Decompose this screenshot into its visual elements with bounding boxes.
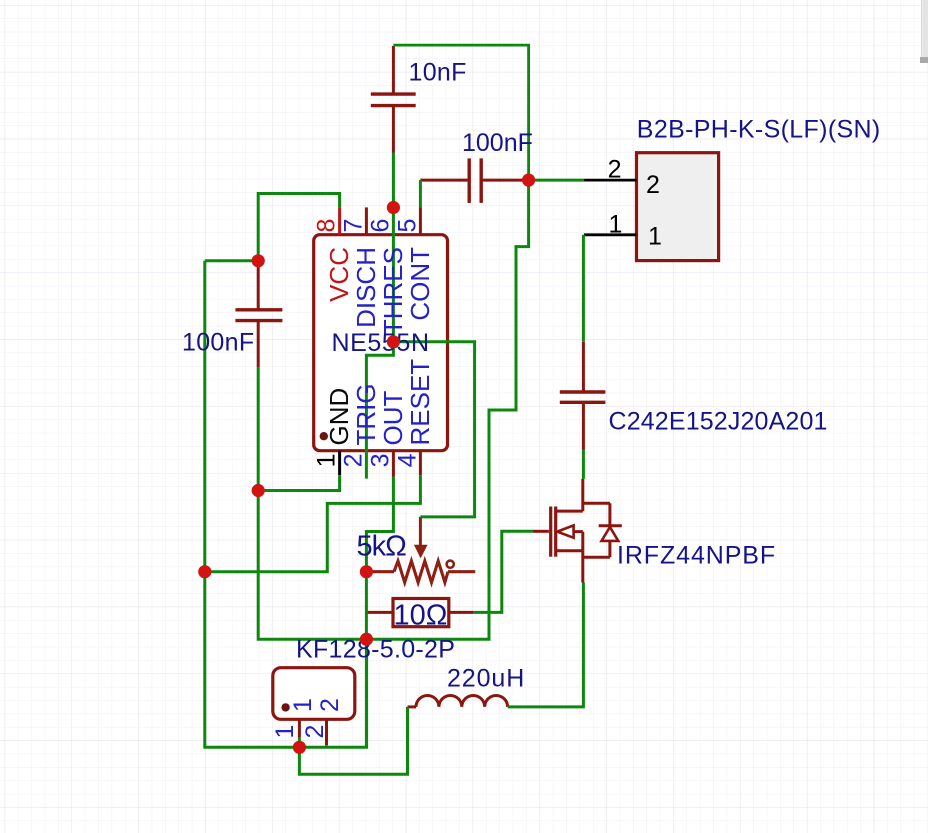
svg-text:6: 6 (366, 219, 394, 233)
wire THRES pin6 vertical through IC to junction D4 (392, 153, 395, 342)
wire D4 to pot wiper (393, 342, 474, 517)
svg-text:5: 5 (393, 219, 421, 233)
J2 pin 1 stub (298, 719, 301, 737)
junction dot D9 KF128 pin1 (293, 741, 306, 754)
J2 pin1 indicator dot (281, 703, 289, 711)
wire connector pin1 down to C242 cap (582, 235, 585, 342)
svg-text:VCC: VCC (324, 247, 354, 302)
svg-text:220uH: 220uH (447, 665, 525, 693)
svg-text:NE555N: NE555N (332, 329, 430, 357)
svg-text:10nF: 10nF (409, 59, 467, 87)
svg-text:3: 3 (366, 453, 394, 467)
U1 pin 1 stub (GND, black) (338, 451, 341, 475)
junction dot D2 at 100nF right (522, 174, 535, 187)
U1 pin 5 stub (419, 207, 422, 234)
diode D1 body diode of Q1 (583, 503, 622, 557)
capacitor C2 100nF (top) (420, 158, 527, 203)
RV1 wiper terminal circle (447, 561, 454, 568)
wire CONT pin5 to 100nF C2 (419, 180, 422, 207)
op-amp/timer U1 NE555N body (314, 235, 448, 451)
connector J1 B2B-PH-K-S(LF)(SN) body (637, 153, 719, 261)
svg-text:1: 1 (289, 698, 317, 712)
svg-text:2: 2 (646, 171, 660, 199)
svg-text:10Ω: 10Ω (394, 600, 448, 632)
svg-text:4: 4 (393, 453, 421, 467)
J2 pin 2 stub (325, 719, 328, 745)
Q1 body arrow head (557, 525, 573, 537)
wire KF128 pin1 stub green part (298, 737, 301, 747)
resistor R1 10 Ohm box (393, 599, 449, 627)
junction dot D7 pot left (360, 565, 373, 578)
svg-text:IRFZ44NPBF: IRFZ44NPBF (617, 542, 776, 570)
Q1 channel bar (554, 507, 557, 557)
Q1 drain connection (557, 479, 583, 511)
capacitor C1 10nF (371, 46, 416, 153)
capacitor C3 100nF (left) (235, 261, 282, 368)
svg-text:7: 7 (339, 219, 367, 233)
R1 left lead (366, 611, 393, 614)
wire net VCC top: cap C1 top to connector junction (393, 45, 528, 180)
svg-text:KF128-5.0-2P: KF128-5.0-2P (296, 636, 455, 664)
svg-text:2: 2 (339, 453, 367, 467)
U1 pin 3 stub (392, 451, 395, 477)
connector J2 KF128-5.0-2P body (273, 668, 355, 720)
transistor Q1 IRFZ44NPBF (533, 479, 583, 583)
junction dot D5 bottom of left 100nF (252, 484, 265, 497)
svg-text:GND: GND (324, 388, 354, 446)
U1 pin 7 stub (365, 207, 368, 234)
svg-text:5kΩ: 5kΩ (357, 531, 407, 563)
wire OUT pin3 down to vertical rail through D7 D8 to bottom (366, 477, 393, 748)
U1 pin 4 stub (419, 451, 422, 475)
wire junction D2 branch to connector pin 2 (529, 179, 584, 182)
svg-text:2: 2 (316, 698, 344, 712)
svg-text:2: 2 (608, 155, 622, 183)
wire C242 bottom to MOSFET drain (582, 450, 585, 479)
svg-text:OUT: OUT (378, 391, 408, 446)
junction dot D6 left rail (198, 565, 211, 578)
svg-text:CONT: CONT (405, 247, 435, 321)
U1 pin 8 stub (338, 207, 341, 234)
svg-text:DISCH: DISCH (351, 247, 381, 328)
wire top-left VCC branch to pin 8 (258, 194, 339, 261)
Q1 gate bar (549, 507, 552, 557)
svg-text:1: 1 (271, 725, 299, 739)
wire inductor left to bottom loop to D9 (299, 707, 407, 774)
wire MOSFET source down to inductor right (508, 583, 584, 707)
wire D4 internal route to TRIG pin2 (366, 342, 393, 479)
junction dot D8 bottom bus (360, 633, 373, 646)
RV1 wiper arrowhead (414, 545, 428, 559)
svg-text:1: 1 (313, 453, 341, 467)
junction dot D3 top of left 100nF (252, 254, 265, 267)
Q1 gate lead (533, 530, 549, 533)
wire 100nF C3 bottom to junction D5 and to pin1 GND (258, 368, 339, 491)
scrollbar track right (922, 0, 928, 63)
svg-text:RESET: RESET (405, 359, 435, 446)
Q1 body connection with arrow line (574, 532, 583, 551)
wire 10R right lead to MOSFET gate (474, 531, 533, 612)
J1 pin 1 line (584, 233, 637, 236)
svg-text:C242E152J20A201: C242E152J20A201 (609, 408, 828, 436)
svg-text:2: 2 (301, 725, 329, 739)
svg-text:1: 1 (648, 223, 662, 251)
svg-text:1: 1 (609, 211, 623, 239)
RV1 wiper lead (419, 517, 422, 550)
J1 pin 2 line (584, 179, 637, 182)
wire D3 left to long left rail down and bottom to D9 area (205, 259, 258, 262)
wire left rail down along x=205 to bottom and up to bus dot D8 (205, 261, 367, 748)
potentiometer RV1 5k zigzag (366, 561, 475, 582)
svg-text:100nF: 100nF (462, 129, 533, 157)
junction dot D1 pin6 (387, 201, 400, 214)
svg-text:B2B-PH-K-S(LF)(SN): B2B-PH-K-S(LF)(SN) (637, 116, 881, 144)
R1 right lead (449, 611, 474, 614)
scrollbar thumb (923, 0, 928, 58)
Q1 source connection (557, 551, 583, 583)
wire from D2 down long route to bottom bus and left cap (258, 180, 528, 639)
svg-text:TRIG: TRIG (351, 383, 381, 445)
svg-text:100nF: 100nF (182, 329, 254, 357)
svg-text:8: 8 (313, 219, 341, 233)
junction dot D4 inside U1 (387, 335, 400, 348)
capacitor C4 C242E152J20A201 (560, 342, 606, 450)
svg-text:THRES: THRES (378, 247, 408, 335)
inductor L1 220uH (408, 695, 508, 706)
wire RESET pin4 route to left rail junction D6 (205, 475, 421, 572)
U1 pin1 indicator dot (320, 432, 328, 440)
